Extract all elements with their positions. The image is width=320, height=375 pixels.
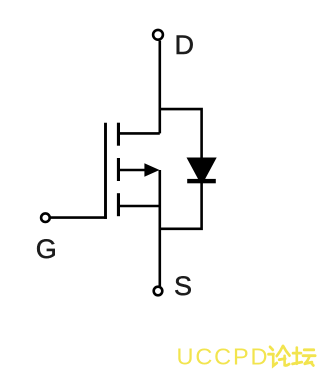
svg-text:D: D: [175, 30, 195, 60]
svg-text:G: G: [36, 234, 57, 264]
svg-text:UCCPD: UCCPD: [177, 344, 270, 370]
svg-text:S: S: [174, 271, 192, 301]
